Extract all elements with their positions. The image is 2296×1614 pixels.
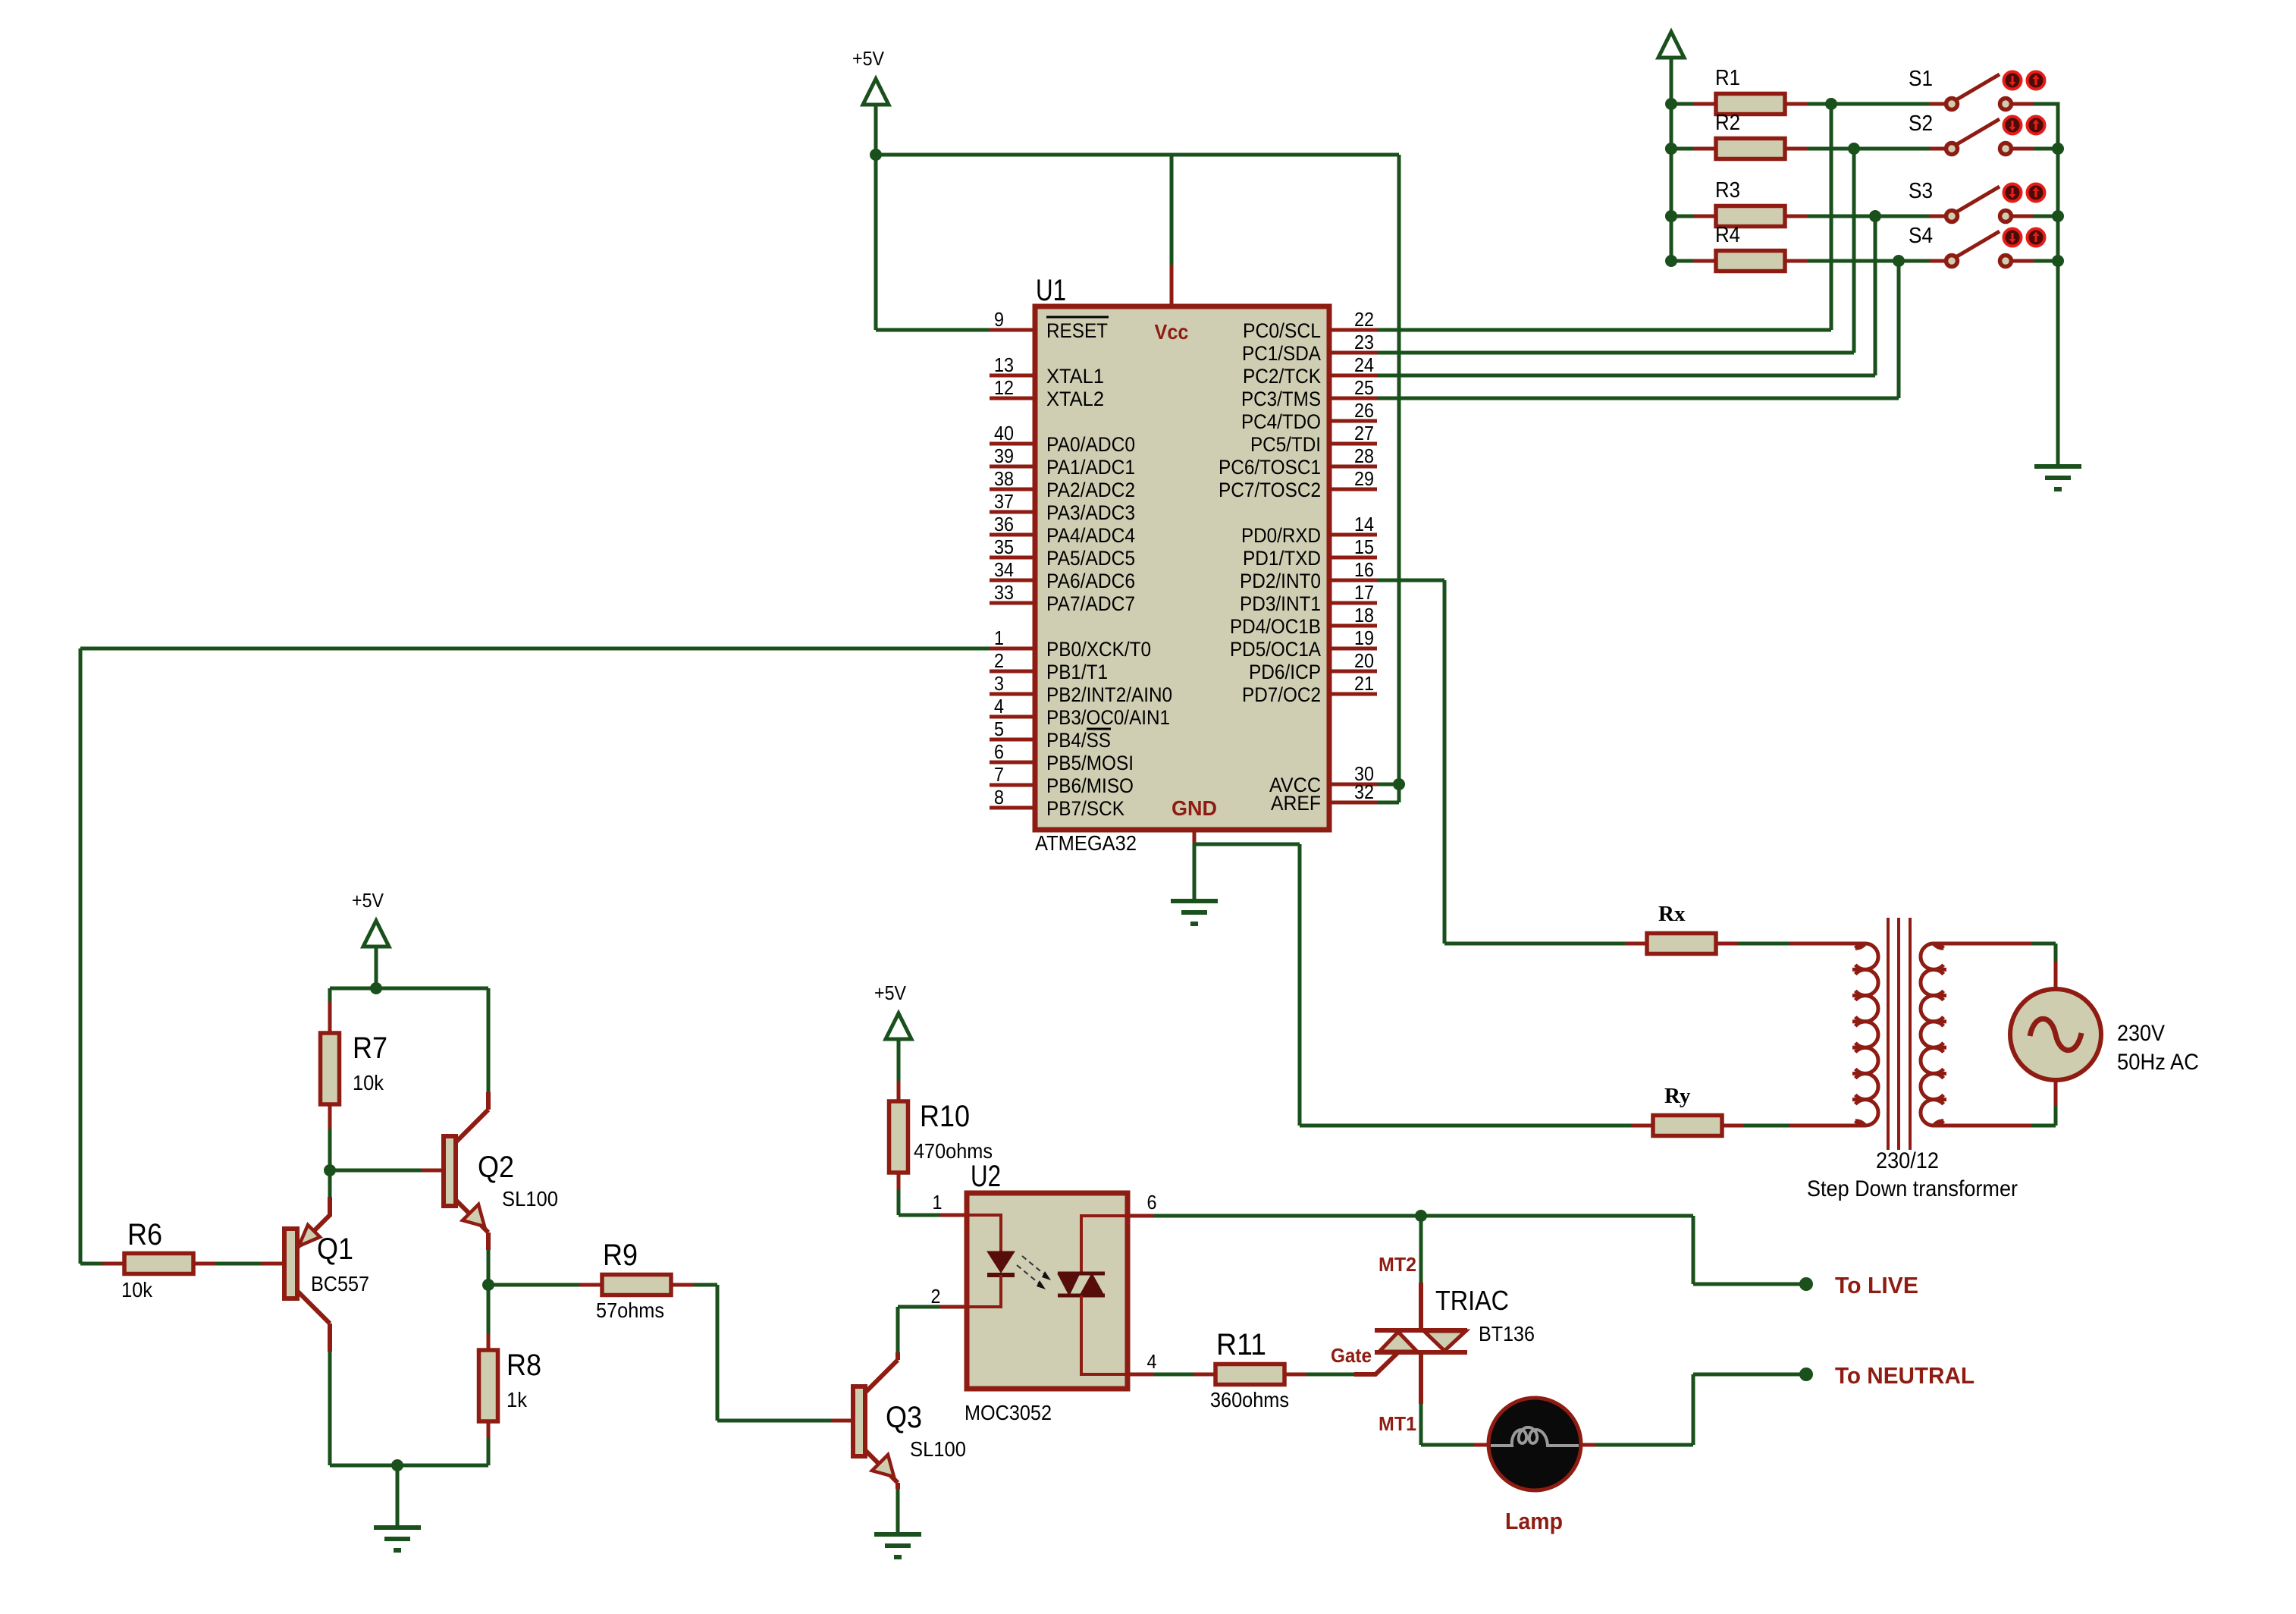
- svg-text:35: 35: [994, 535, 1014, 558]
- svg-text:6: 6: [1147, 1191, 1157, 1214]
- svg-text:360ohms: 360ohms: [1210, 1388, 1289, 1411]
- svg-text:28: 28: [1354, 444, 1374, 467]
- svg-text:PB1/T1: PB1/T1: [1046, 661, 1108, 683]
- svg-text:PB6/MISO: PB6/MISO: [1046, 774, 1134, 797]
- svg-text:PC7/TOSC2: PC7/TOSC2: [1219, 479, 1321, 501]
- svg-text:Rx: Rx: [1658, 902, 1686, 926]
- svg-text:PA0/ADC0: PA0/ADC0: [1046, 433, 1135, 456]
- svg-text:PA5/ADC5: PA5/ADC5: [1046, 547, 1135, 570]
- svg-text:33: 33: [994, 581, 1014, 604]
- svg-text:PB4/SS: PB4/SS: [1046, 729, 1111, 752]
- svg-text:XTAL1: XTAL1: [1046, 365, 1104, 388]
- svg-text:PA1/ADC1: PA1/ADC1: [1046, 456, 1135, 479]
- svg-text:15: 15: [1354, 535, 1374, 558]
- svg-text:1: 1: [994, 626, 1004, 649]
- svg-text:32: 32: [1354, 780, 1374, 803]
- svg-text:14: 14: [1354, 513, 1374, 535]
- svg-text:U1: U1: [1036, 274, 1066, 307]
- svg-text:R11: R11: [1216, 1328, 1266, 1361]
- svg-text:22: 22: [1354, 308, 1374, 331]
- svg-text:SL100: SL100: [910, 1437, 966, 1461]
- svg-text:PD3/INT1: PD3/INT1: [1240, 592, 1321, 615]
- svg-text:S2: S2: [1909, 111, 1933, 136]
- svg-text:S4: S4: [1909, 224, 1933, 248]
- svg-text:PC6/TOSC1: PC6/TOSC1: [1219, 456, 1321, 479]
- svg-text:R4: R4: [1715, 223, 1740, 247]
- svg-text:230/12: 230/12: [1876, 1148, 1939, 1173]
- svg-text:PC4/TDO: PC4/TDO: [1241, 410, 1321, 433]
- svg-text:U2: U2: [971, 1160, 1001, 1193]
- svg-text:MOC3052: MOC3052: [965, 1401, 1052, 1424]
- svg-text:24: 24: [1354, 353, 1374, 376]
- svg-text:PD2/INT0: PD2/INT0: [1240, 570, 1321, 592]
- svg-text:R8: R8: [507, 1349, 541, 1382]
- svg-text:ATMEGA32: ATMEGA32: [1035, 831, 1137, 855]
- svg-text:R3: R3: [1715, 178, 1740, 203]
- svg-text:AREF: AREF: [1271, 792, 1321, 815]
- svg-text:To LIVE: To LIVE: [1835, 1272, 1918, 1298]
- svg-text:57ohms: 57ohms: [596, 1298, 664, 1322]
- svg-text:S3: S3: [1909, 179, 1933, 203]
- svg-text:PB3/OC0/AIN1: PB3/OC0/AIN1: [1046, 706, 1170, 729]
- svg-text:MT2: MT2: [1379, 1253, 1416, 1276]
- svg-text:Q3: Q3: [886, 1401, 922, 1434]
- svg-text:PD6/ICP: PD6/ICP: [1249, 661, 1321, 683]
- svg-text:10k: 10k: [121, 1278, 153, 1302]
- svg-text:Q2: Q2: [478, 1151, 514, 1184]
- svg-text:TRIAC: TRIAC: [1435, 1285, 1509, 1316]
- svg-text:PB0/XCK/T0: PB0/XCK/T0: [1046, 638, 1151, 661]
- svg-text:SL100: SL100: [502, 1187, 558, 1210]
- svg-text:2: 2: [994, 649, 1004, 672]
- svg-text:+5V: +5V: [352, 889, 384, 912]
- svg-text:PC5/TDI: PC5/TDI: [1250, 433, 1321, 456]
- svg-text:R9: R9: [603, 1239, 638, 1272]
- svg-text:PD5/OC1A: PD5/OC1A: [1230, 638, 1321, 661]
- svg-text:23: 23: [1354, 331, 1374, 353]
- svg-text:1k: 1k: [507, 1388, 528, 1411]
- svg-text:BC557: BC557: [311, 1272, 369, 1295]
- svg-text:PD7/OC2: PD7/OC2: [1242, 683, 1321, 706]
- svg-text:Step Down transformer: Step Down transformer: [1807, 1176, 2018, 1201]
- svg-text:GND: GND: [1172, 796, 1217, 820]
- svg-text:13: 13: [994, 353, 1014, 376]
- svg-text:29: 29: [1354, 467, 1374, 490]
- svg-text:Vcc: Vcc: [1155, 320, 1189, 344]
- svg-text:1: 1: [933, 1191, 943, 1214]
- svg-text:39: 39: [994, 444, 1014, 467]
- svg-text:MT1: MT1: [1379, 1412, 1416, 1435]
- svg-text:PD1/TXD: PD1/TXD: [1243, 547, 1321, 570]
- svg-text:R10: R10: [920, 1100, 970, 1133]
- svg-text:26: 26: [1354, 399, 1374, 422]
- svg-text:18: 18: [1354, 604, 1374, 626]
- svg-text:R1: R1: [1715, 66, 1740, 90]
- svg-text:+5V: +5V: [852, 47, 885, 70]
- svg-text:27: 27: [1354, 422, 1374, 444]
- svg-text:6: 6: [994, 740, 1004, 763]
- svg-text:PC2/TCK: PC2/TCK: [1243, 365, 1321, 388]
- svg-text:40: 40: [994, 422, 1014, 444]
- svg-text:R2: R2: [1715, 111, 1740, 135]
- svg-text:XTAL2: XTAL2: [1046, 388, 1104, 410]
- svg-text:9: 9: [994, 308, 1004, 331]
- svg-text:PB5/MOSI: PB5/MOSI: [1046, 752, 1134, 774]
- svg-text:Ry: Ry: [1664, 1084, 1691, 1108]
- svg-text:4: 4: [1147, 1350, 1157, 1373]
- svg-text:PC1/SDA: PC1/SDA: [1242, 342, 1321, 365]
- svg-text:PD0/RXD: PD0/RXD: [1241, 524, 1321, 547]
- svg-text:PA3/ADC3: PA3/ADC3: [1046, 501, 1135, 524]
- svg-text:10k: 10k: [353, 1071, 384, 1094]
- svg-text:12: 12: [994, 376, 1014, 399]
- svg-text:PB2/INT2/AIN0: PB2/INT2/AIN0: [1046, 683, 1172, 706]
- svg-text:BT136: BT136: [1479, 1322, 1535, 1346]
- svg-text:PC3/TMS: PC3/TMS: [1241, 388, 1321, 410]
- svg-text:PB7/SCK: PB7/SCK: [1046, 797, 1124, 820]
- svg-text:Lamp: Lamp: [1505, 1508, 1563, 1534]
- svg-text:50Hz AC: 50Hz AC: [2117, 1050, 2199, 1075]
- svg-text:20: 20: [1354, 649, 1374, 672]
- svg-text:To NEUTRAL: To NEUTRAL: [1835, 1362, 1974, 1389]
- svg-text:PA6/ADC6: PA6/ADC6: [1046, 570, 1135, 592]
- svg-text:19: 19: [1354, 626, 1374, 649]
- svg-text:37: 37: [994, 490, 1014, 513]
- svg-text:5: 5: [994, 718, 1004, 740]
- svg-text:Q1: Q1: [317, 1232, 353, 1266]
- svg-text:3: 3: [994, 672, 1004, 695]
- svg-text:2: 2: [931, 1285, 941, 1308]
- svg-text:36: 36: [994, 513, 1014, 535]
- svg-text:16: 16: [1354, 558, 1374, 581]
- svg-text:R6: R6: [127, 1218, 162, 1251]
- svg-text:34: 34: [994, 558, 1014, 581]
- svg-text:PA2/ADC2: PA2/ADC2: [1046, 479, 1135, 501]
- svg-text:R7: R7: [353, 1032, 387, 1065]
- svg-text:7: 7: [994, 763, 1004, 786]
- svg-text:4: 4: [994, 695, 1004, 718]
- svg-text:25: 25: [1354, 376, 1374, 399]
- svg-text:PC0/SCL: PC0/SCL: [1243, 319, 1321, 342]
- svg-text:21: 21: [1354, 672, 1374, 695]
- svg-text:8: 8: [994, 786, 1004, 809]
- svg-text:RESET: RESET: [1046, 319, 1108, 342]
- svg-text:+5V: +5V: [874, 981, 907, 1004]
- svg-text:S1: S1: [1909, 67, 1933, 91]
- svg-text:38: 38: [994, 467, 1014, 490]
- svg-text:PA4/ADC4: PA4/ADC4: [1046, 524, 1135, 547]
- svg-text:PA7/ADC7: PA7/ADC7: [1046, 592, 1135, 615]
- svg-text:230V: 230V: [2117, 1021, 2165, 1046]
- svg-text:17: 17: [1354, 581, 1374, 604]
- svg-text:PD4/OC1B: PD4/OC1B: [1230, 615, 1321, 638]
- svg-text:Gate: Gate: [1331, 1344, 1372, 1367]
